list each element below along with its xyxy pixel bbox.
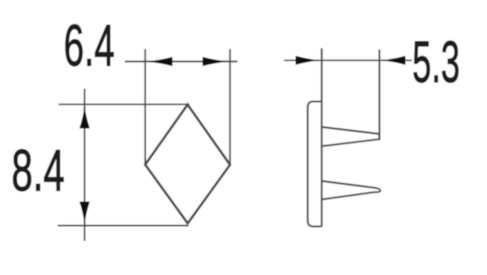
6.4 right arrowhead — [203, 57, 230, 66]
6.4 left arrowhead — [146, 57, 173, 66]
8.4 down arrowhead — [79, 202, 89, 226]
svg-text:6.4: 6.4 — [64, 14, 115, 78]
side view: left long vertical (extension + flange right edge) — [321, 48, 323, 226]
8.4 up arrowhead — [79, 105, 89, 129]
lower barb — [322, 181, 381, 199]
6.4 dimension line — [125, 61, 238, 63]
svg-text:8.4: 8.4 — [12, 140, 65, 204]
side view: right vertical (extension + head right edge) — [378, 50, 380, 140]
8.4 dimension line — [84, 89, 86, 241]
8.4 top extension line — [59, 103, 190, 105]
diamond head outline (front view) — [145, 105, 230, 224]
svg-text:5.3: 5.3 — [412, 31, 460, 96]
upper barb — [322, 127, 380, 146]
5.3 dimension line — [284, 59, 412, 61]
8.4 bottom extension line — [58, 225, 189, 227]
6.4 left extension line — [144, 49, 146, 164]
6.4 right extension line — [229, 49, 231, 165]
5.3 left arrowhead (outside, points right) — [296, 56, 321, 65]
5.3 right arrowhead (outside, points left) — [381, 56, 406, 65]
flange outline (rounded bar) — [308, 102, 322, 227]
